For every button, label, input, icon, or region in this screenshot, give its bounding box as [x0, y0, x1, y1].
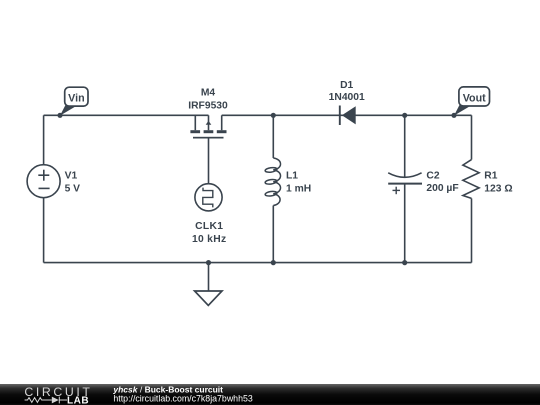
- svg-text:D1: D1: [340, 80, 353, 91]
- label M4: [188, 88, 228, 112]
- wire C2 top lead: [404, 115, 406, 177]
- svg-text:200 µF: 200 µF: [426, 183, 458, 194]
- capacitor C2 (polarized): [388, 173, 422, 194]
- wire R1 bottom lead: [471, 198, 473, 262]
- node dot Vin attach: [57, 113, 62, 118]
- label C2: [426, 171, 458, 195]
- logo doodle resistor-diode: [25, 397, 67, 404]
- wire V1 bottom lead: [43, 198, 45, 263]
- net flag Vin: [60, 87, 88, 115]
- svg-text:5 V: 5 V: [65, 184, 81, 195]
- inductor L1: [265, 158, 281, 206]
- wire top-left horizontal (Vin net): [44, 114, 209, 116]
- svg-text:C2: C2: [426, 171, 439, 182]
- node dot ground junction: [206, 260, 211, 265]
- svg-text:Vin: Vin: [68, 93, 84, 105]
- label CLK1: [192, 221, 226, 245]
- svg-text:LAB: LAB: [67, 396, 89, 405]
- ground: [195, 291, 222, 305]
- clock source CLK1: [195, 184, 222, 211]
- label R1: [484, 171, 512, 195]
- wire ground stem: [208, 263, 210, 291]
- wire left vertical (V1 top lead): [43, 115, 45, 164]
- svg-text:CLK1: CLK1: [195, 221, 223, 232]
- node dot C2 top: [402, 113, 407, 118]
- svg-text:R1: R1: [484, 171, 497, 182]
- svg-text:1N4001: 1N4001: [329, 92, 365, 103]
- svg-text:10 kHz: 10 kHz: [192, 234, 226, 245]
- svg-text:1 mH: 1 mH: [286, 183, 311, 194]
- net flag Vout: [454, 87, 490, 116]
- label D1: [329, 80, 365, 103]
- wire L1 bottom lead: [272, 206, 274, 263]
- label V1 value: [65, 171, 81, 195]
- node dot Vout attach: [451, 113, 456, 118]
- wire top-right horizontal (switch node to Vout): [222, 114, 472, 116]
- wire L1 top lead: [272, 115, 274, 158]
- wire C2 bottom lead: [404, 184, 406, 263]
- footer bar: [0, 384, 540, 405]
- svg-text:Vout: Vout: [463, 93, 486, 105]
- svg-text:M4: M4: [201, 88, 216, 99]
- svg-text:123 Ω: 123 Ω: [484, 183, 512, 194]
- label L1: [286, 170, 311, 194]
- node dot C2 bottom: [402, 260, 407, 265]
- svg-text:http://circuitlab.com/c7k8ja7b: http://circuitlab.com/c7k8ja7bwhh53: [113, 394, 252, 404]
- node dot L1 top: [271, 113, 276, 118]
- resistor R1: [463, 160, 479, 199]
- svg-text:L1: L1: [286, 170, 298, 181]
- transistor M4 (PMOS IRF9530): [190, 115, 226, 183]
- node dot L1 bottom: [271, 260, 276, 265]
- wire bottom rail: [44, 262, 472, 264]
- voltage source V1: [27, 165, 60, 198]
- wire right vertical (R1 top lead): [471, 115, 473, 159]
- diode D1: [340, 106, 356, 126]
- svg-text:V1: V1: [65, 171, 78, 182]
- svg-text:IRF9530: IRF9530: [188, 101, 228, 112]
